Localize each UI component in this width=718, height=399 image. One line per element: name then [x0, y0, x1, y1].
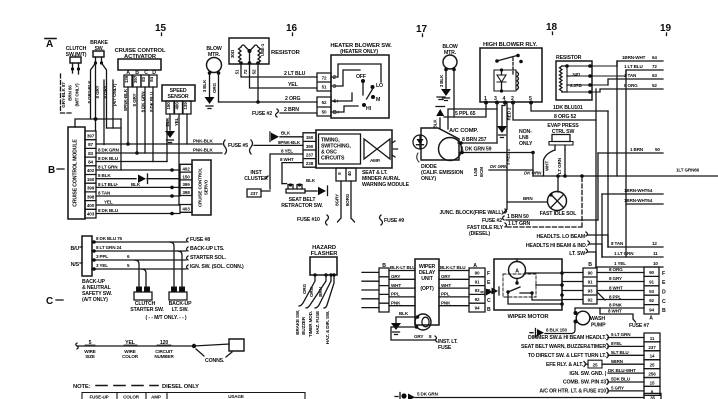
dashed wire M/T only clutch — [61, 74, 74, 113]
svg-text:B+: B+ — [333, 110, 340, 116]
svg-text:92: 92 — [588, 298, 593, 303]
wire pin398 8 TAN to servo — [96, 195, 180, 197]
svg-text:2 BRN: 2 BRN — [284, 107, 299, 113]
high blower relay box — [480, 48, 542, 102]
junc block label — [439, 210, 503, 216]
grid column label 16 — [286, 23, 298, 34]
svg-text:(A/T ONLY): (A/T ONLY) — [82, 297, 108, 303]
wire 1 DK GRN 59 from compressor — [459, 152, 533, 154]
svg-text:72: 72 — [322, 76, 327, 81]
svg-text:FAST IDLE SOL: FAST IDLE SOL — [540, 211, 578, 217]
hazard wire BRN — [315, 275, 331, 308]
svg-text:8PNK-BLK: 8PNK-BLK — [123, 88, 128, 111]
wire BLK to ground from grommet — [396, 317, 418, 323]
svg-text:50: 50 — [655, 147, 660, 152]
ign sw gnd row label — [569, 371, 606, 377]
wiper motor internal wires — [508, 259, 562, 304]
wire 8 PPL to conn C — [597, 292, 644, 300]
svg-text:150: 150 — [166, 102, 171, 110]
svg-text:8 BLK: 8 BLK — [98, 173, 111, 178]
svg-text:92: 92 — [475, 297, 480, 302]
svg-text:25: 25 — [650, 363, 655, 368]
svg-text:4+: 4+ — [333, 99, 339, 105]
svg-text:139: 139 — [124, 75, 129, 83]
svg-text:93: 93 — [588, 289, 593, 294]
svg-text:150: 150 — [182, 174, 190, 179]
wire vertical x598 fuse2 riser — [597, 153, 599, 220]
wire blower ORG down to y102 — [218, 73, 220, 102]
svg-text:BACK-UP LTS.: BACK-UP LTS. — [190, 246, 225, 252]
wire brake sw left down — [95, 63, 97, 131]
wire DK BLU-WHT row5 — [608, 372, 644, 374]
wire 8YEL row2 — [608, 345, 644, 347]
hazard wire ORG 1 — [299, 275, 315, 306]
usage table — [82, 393, 305, 399]
svg-text:WHT: WHT — [391, 283, 401, 288]
rotated wire label 8 DK GRN — [141, 91, 146, 113]
wire clutch starter sw risers — [135, 260, 146, 287]
module pin numbers — [87, 133, 95, 216]
grid column label 19 — [660, 23, 672, 34]
terminal box 237 — [644, 342, 660, 351]
inst cluster box 237 — [247, 189, 261, 197]
speed sensor pin box 400 — [175, 101, 183, 114]
svg-text:OFF: OFF — [356, 74, 366, 80]
svg-text:8 ORG 52: 8 ORG 52 — [554, 114, 576, 120]
wire 2 BRN from fuse #2 — [280, 112, 317, 114]
ground blower motor 2 — [441, 89, 451, 96]
blower resistor box (col16) — [229, 38, 269, 64]
wire 8 BRN 257 from compressor — [458, 142, 497, 144]
terminal box 256 — [644, 369, 660, 378]
dashed wire 1 LT GRN diesel — [507, 176, 582, 227]
svg-text:94: 94 — [475, 306, 480, 311]
wire brake sw 8 GRY-BLK diagonal — [91, 63, 96, 119]
svg-text:400: 400 — [175, 102, 180, 110]
wire BLK into timing module pin150 — [280, 136, 303, 138]
activator pin box 83 — [141, 75, 149, 87]
wiper conn letters F E D C B and A — [649, 271, 666, 322]
svg-text:94: 94 — [649, 308, 654, 313]
grid column label 15 — [155, 23, 167, 34]
connector arrow BLK — [271, 133, 279, 141]
heater sw pin boxes 72 51 — [317, 73, 331, 91]
legend labels 5 YEL 120 — [89, 340, 169, 346]
svg-text:HAZ. FUSE: HAZ. FUSE — [315, 311, 320, 334]
A/C compressor body — [421, 128, 459, 160]
evap press ctrl sw label — [547, 123, 579, 135]
M/T only note — [145, 315, 186, 321]
svg-text:EFE RLY. & ALT.: EFE RLY. & ALT. — [546, 362, 584, 368]
svg-text:GRY: GRY — [441, 274, 450, 279]
grid row C dash — [56, 299, 63, 301]
svg-text:91: 91 — [475, 279, 480, 284]
timing module pin boxes 150 390 237 238 — [303, 133, 316, 167]
wire pin150 8 BLK with connector — [96, 178, 180, 180]
inst cluster label — [244, 170, 268, 182]
back-up & neutral safety switch pin labels — [71, 246, 80, 268]
wire resistor pin to YEL row — [250, 63, 318, 88]
svg-text:402: 402 — [182, 167, 190, 172]
svg-text:11: 11 — [650, 336, 655, 341]
wire 8 BLK 150 ground lead — [545, 322, 575, 334]
svg-text:8 DK BLU: 8 DK BLU — [98, 156, 119, 161]
diode D1 — [413, 135, 427, 149]
wire 5 LT GRN row1 — [608, 337, 644, 339]
wire vertical x596 riser — [595, 89, 597, 267]
ign sw sol conn label — [187, 265, 189, 269]
wire 5 BRN row4 — [602, 363, 644, 365]
svg-text:63: 63 — [652, 73, 657, 78]
svg-text:SENSOR: SENSOR — [167, 94, 188, 100]
wire relay pin4 to ground — [502, 103, 505, 126]
svg-text:JUNC. BLOCK(FIRE WALL): JUNC. BLOCK(FIRE WALL) — [439, 210, 503, 216]
headlts hi beam label — [526, 243, 588, 249]
rotated pin labels 51 72 52 — [235, 69, 257, 74]
LN8 ECM rotated label — [473, 167, 484, 177]
wire pin84 8 DK BLU — [96, 161, 167, 163]
seat & lt minder module box — [316, 130, 392, 168]
wire pin83 8 DK GRN to fuse5 — [96, 152, 222, 154]
resistor label (col18) — [556, 55, 582, 61]
svg-text:14: 14 — [650, 354, 655, 359]
stubs motor to pins — [562, 273, 583, 300]
svg-text:IGN. SW. GND. |: IGN. SW. GND. | — [569, 371, 606, 377]
wiper delay left pin column — [379, 268, 389, 312]
connector on 5 DK GRN wire — [401, 393, 406, 398]
wire 5LT BLU row3 — [608, 354, 644, 356]
node pinA/pnkblk row — [126, 142, 130, 146]
svg-text:HI: HI — [366, 106, 372, 112]
svg-text:403: 403 — [182, 207, 190, 212]
wire speed sensor BLK — [169, 114, 171, 130]
svg-text:TIMER MOD.: TIMER MOD. — [308, 311, 313, 337]
fuse #2 label — [252, 111, 272, 117]
wiper motor armature A — [509, 262, 526, 279]
wire pin87 to fuse5 — [96, 143, 222, 145]
wire 8 WHT into pin238 — [282, 163, 303, 184]
heater sw internal wiring — [331, 64, 381, 112]
grid tick 15 — [161, 33, 163, 36]
svg-text:HAZ. & DIR. SW.: HAZ. & DIR. SW. — [325, 311, 330, 344]
svg-text:STARTER SW.: STARTER SW. — [130, 307, 164, 313]
fuse #2 label lower — [482, 218, 502, 224]
svg-text:8 TAN: 8 TAN — [611, 241, 624, 246]
wire back-up lt sw risers — [170, 242, 182, 287]
wire vertical x113 — [112, 80, 114, 128]
svg-text:390: 390 — [306, 144, 314, 149]
wire GRY to inst lt fuse — [391, 327, 434, 340]
wiper motor internal contacts — [508, 287, 532, 293]
svg-text:16: 16 — [286, 23, 298, 34]
svg-text:FUSE-UP: FUSE-UP — [89, 395, 108, 399]
wiper delay A column label — [473, 263, 477, 269]
wire 8PNK-BLK into pin390 — [254, 144, 303, 146]
wire brake sw right down — [102, 63, 107, 128]
wire 3 PPL to starter sol — [92, 259, 186, 261]
timing switching osc circuits inner box — [319, 134, 361, 164]
svg-text:F: F — [662, 271, 665, 277]
wire horizontal 1 LT GRN 66 row — [533, 175, 718, 177]
svg-text:CIRCUITS: CIRCUITS — [321, 156, 345, 162]
svg-text:HIGH BLOWER RLY.: HIGH BLOWER RLY. — [483, 42, 537, 48]
svg-text:HEADLTS. LO BEAM: HEADLTS. LO BEAM — [536, 234, 585, 240]
wires into wiper delay unit left — [389, 271, 415, 306]
svg-text:3 RED 2: 3 RED 2 — [506, 148, 511, 165]
wiper delay unit B column label — [382, 263, 386, 269]
svg-text:BRAKE SW,: BRAKE SW, — [295, 310, 300, 335]
svg-text:83: 83 — [88, 151, 93, 156]
wiper conn column 90 91 93 92 94 — [644, 267, 659, 314]
svg-text:SERVO: SERVO — [204, 179, 209, 195]
wire BLK to ground from retractor — [305, 190, 317, 192]
svg-text:A/C COMP.: A/C COMP. — [449, 128, 478, 134]
svg-text:3 BLK: 3 BLK — [439, 74, 444, 87]
wire 8 PNK from wash pump to conn B — [575, 308, 644, 313]
headlts lo beam label — [536, 234, 585, 240]
svg-text:87: 87 — [88, 142, 93, 147]
rotated wire label 8 PNK-BLK — [123, 88, 128, 111]
grid tick 17 — [422, 34, 424, 37]
svg-text:ECM: ECM — [479, 167, 484, 177]
svg-text:DIESEL ONLY: DIESEL ONLY — [162, 384, 199, 390]
svg-text:50: 50 — [322, 110, 327, 115]
svg-text:FUSE #2: FUSE #2 — [252, 111, 272, 117]
svg-text:A: A — [46, 39, 53, 50]
svg-text:N/S: N/S — [71, 262, 80, 268]
wire pin399 8 LT BLU-BLK to servo — [96, 186, 180, 188]
wire clutch pins — [73, 69, 79, 74]
wire 8 GRY down to fuse10 — [338, 181, 342, 222]
speed sensor box — [162, 85, 195, 101]
svg-text:CRUISE CONTROL: CRUISE CONTROL — [198, 168, 203, 208]
svg-text:398: 398 — [182, 190, 190, 195]
cruise control activator label — [115, 48, 166, 60]
svg-text:(OPT): (OPT) — [420, 286, 434, 292]
hazard wire 4 — [324, 275, 334, 308]
svg-text:19: 19 — [660, 23, 672, 34]
svg-text:ORG: ORG — [302, 283, 307, 294]
relay dashed actuator link — [512, 58, 514, 74]
heater blower switch box — [331, 55, 389, 118]
grid column label 18 — [546, 22, 558, 33]
svg-text:5 DK GRN: 5 DK GRN — [417, 392, 439, 397]
module bottom pin boxes 8 40 — [336, 168, 356, 181]
svg-text:40: 40 — [347, 171, 352, 176]
heater sw internal pin numbers — [333, 75, 340, 116]
svg-text:400: 400 — [87, 203, 95, 208]
node x121/x172 on 402 wire — [170, 168, 174, 172]
svg-text:93: 93 — [475, 288, 480, 293]
svg-text:C: C — [662, 299, 666, 305]
evap press ctrl sw connector — [552, 135, 570, 142]
seat & lt minder aural warning module label — [362, 170, 410, 188]
svg-text:DK BLU-WHT: DK BLU-WHT — [608, 368, 636, 373]
svg-text:F: F — [487, 271, 490, 277]
connector arrow and ground retractor — [318, 187, 326, 195]
svg-text:237: 237 — [306, 152, 314, 157]
svg-text:150: 150 — [306, 135, 314, 140]
fast idle sol label — [540, 211, 578, 217]
wiper delay pin letters F E D C B — [487, 271, 491, 313]
wire blower2 3 BLK — [445, 70, 447, 89]
blower motor label (col16) — [206, 46, 222, 58]
svg-text:11: 11 — [653, 251, 658, 256]
svg-text:5LT BLU: 5LT BLU — [611, 350, 629, 355]
connector arrow at pin D — [492, 288, 499, 295]
resistor value 2.37 ohm — [570, 83, 582, 88]
svg-text:BLK-LT BLU: BLK-LT BLU — [440, 265, 466, 270]
grid tick 16 — [292, 33, 294, 36]
svg-text:3: 3 — [333, 84, 336, 90]
rotated wire label BLK — [165, 117, 170, 127]
svg-text:3 PPL: 3 PPL — [96, 254, 108, 259]
svg-text:51: 51 — [235, 69, 240, 74]
svg-text:5 LT GRN: 5 LT GRN — [611, 332, 631, 337]
svg-text:403: 403 — [87, 212, 95, 217]
svg-text:PNK-BLK: PNK-BLK — [193, 139, 213, 144]
svg-text:IGN. SW. (SOL. CONN.): IGN. SW. (SOL. CONN.) — [190, 264, 244, 270]
legend connector box — [194, 344, 229, 346]
svg-text:8 GRY: 8 GRY — [132, 93, 137, 106]
svg-text:256: 256 — [648, 372, 656, 377]
svg-text:FUSE #8: FUSE #8 — [190, 237, 210, 243]
legend sample wire — [77, 345, 194, 347]
wire 5DK BLU row6 — [608, 381, 644, 383]
svg-text:A/C OR HTR. LT. & FUSE #10: A/C OR HTR. LT. & FUSE #10 — [539, 389, 606, 395]
diode label — [421, 164, 464, 182]
svg-text:1LT GRN66: 1LT GRN66 — [676, 168, 700, 173]
rotated labels ORG ORG BRN — [302, 283, 323, 297]
relay switch contact — [497, 56, 517, 62]
svg-text:PNK-BLK: PNK-BLK — [193, 148, 213, 153]
svg-text:DIMMER SW.& HI BEAM HEADLT.: DIMMER SW.& HI BEAM HEADLT. — [528, 335, 607, 341]
svg-text:B/U: B/U — [71, 246, 80, 252]
rotated wire label 8 GRY-BLK — [87, 80, 92, 104]
wire 8 TAN 12 — [608, 246, 663, 248]
terminal box 35 — [644, 393, 661, 399]
rotated label RED 2 — [507, 107, 512, 120]
hazard flasher box — [310, 257, 337, 275]
svg-text:1 LT GRN: 1 LT GRN — [614, 251, 634, 256]
svg-text:237: 237 — [648, 345, 656, 350]
wire 1 LT BLU 72 — [626, 70, 663, 76]
svg-text:ONLY: ONLY — [519, 141, 533, 147]
svg-text:SIZE: SIZE — [85, 354, 95, 359]
svg-text:WHT: WHT — [545, 161, 550, 171]
svg-text:91: 91 — [649, 279, 654, 284]
wire blower2 to 5 PPL 65 row — [453, 70, 455, 118]
heater sw contacts — [361, 79, 365, 83]
svg-text:NUMBER: NUMBER — [154, 354, 174, 359]
svg-text:8 DK BLU: 8 DK BLU — [98, 208, 119, 213]
wire relay pin2 to 8 ORG 52 row — [513, 103, 596, 121]
wire 1 TAN 63 — [608, 79, 663, 85]
svg-text:3 YEL: 3 YEL — [96, 263, 108, 268]
svg-text:FUSE #5: FUSE #5 — [228, 143, 248, 149]
wire 8 YEL into pin237 — [270, 154, 303, 189]
label PNK-BLK upper — [193, 139, 213, 144]
fuse #7 label — [629, 323, 649, 329]
wire 8 WHT wash pump to fuse7 — [600, 308, 636, 322]
wire evap to fast idle sol — [557, 176, 559, 192]
svg-text:AMP.: AMP. — [370, 158, 380, 163]
clutch starter sw label — [130, 301, 164, 313]
wire headlts hi beam — [590, 244, 602, 257]
wiper delay unit box — [415, 259, 439, 325]
svg-text:1 DK GRN 59: 1 DK GRN 59 — [461, 147, 492, 153]
wire 5 PPL 65 to relay pin1 — [444, 103, 486, 118]
svg-text:1BRN-WHT64: 1BRN-WHT64 — [624, 188, 653, 193]
svg-text:BLK: BLK — [433, 119, 438, 129]
wire headlts lo beam — [588, 235, 608, 247]
svg-text:8 WHT: 8 WHT — [280, 157, 294, 162]
svg-text:PUMP: PUMP — [591, 323, 606, 329]
wire activator pin D down — [152, 87, 154, 162]
wire relay pin5 to 1 DK BLU 101 row — [531, 103, 608, 112]
wire vertical x121 to 8LTGRN row — [120, 119, 122, 170]
svg-text:DK GRN: DK GRN — [524, 171, 542, 176]
wire 8 DK BLU 75 to fuse8 — [92, 241, 186, 243]
svg-text:90: 90 — [649, 270, 654, 275]
wire 1 BRN-WHT 64 row a — [602, 193, 663, 195]
speed sensor pin box 139 — [183, 101, 191, 114]
relay coil — [517, 72, 519, 90]
svg-text:B: B — [588, 262, 592, 268]
grid tick 19 — [666, 33, 668, 36]
svg-text:238: 238 — [306, 161, 314, 166]
blower motor label (col17) — [442, 44, 458, 56]
svg-text:5 PPL 65: 5 PPL 65 — [455, 111, 476, 117]
svg-text:RESISTOR: RESISTOR — [556, 55, 582, 61]
svg-text:1 BRN: 1 BRN — [630, 147, 644, 152]
svg-text:83: 83 — [141, 77, 146, 82]
svg-text:8 PNK: 8 PNK — [609, 303, 623, 308]
svg-text:(HEATER ONLY): (HEATER ONLY) — [340, 49, 378, 55]
rotated destination labels — [295, 310, 300, 335]
svg-text:PPL: PPL — [391, 292, 400, 297]
svg-text:(M/T ONLY): (M/T ONLY) — [75, 83, 80, 107]
svg-text:D: D — [662, 290, 666, 296]
cruise control activator box — [118, 59, 161, 70]
wire 8 LT GRN 24 to back-up lts — [92, 250, 186, 252]
svg-text:COLOR: COLOR — [122, 354, 139, 359]
servo pin box 402 — [180, 164, 192, 195]
wiper delay left stubs — [362, 272, 379, 307]
svg-text:8 WHT: 8 WHT — [609, 286, 623, 291]
svg-text:A: A — [649, 316, 653, 322]
svg-text:8GRY: 8GRY — [335, 194, 340, 206]
svg-text:399: 399 — [182, 182, 190, 187]
wire 1 LT GRN 11 — [602, 256, 663, 258]
wire 5 GRY row7 — [608, 390, 644, 392]
svg-text:10: 10 — [653, 261, 658, 266]
rotated wire label 8 GRY — [132, 93, 137, 106]
svg-text:COLOR: COLOR — [123, 395, 140, 399]
svg-text:52: 52 — [322, 100, 327, 105]
heater sw pin boxes 52 50 — [317, 97, 331, 116]
svg-text:BLK: BLK — [399, 311, 409, 316]
svg-text:FUSE: FUSE — [438, 345, 452, 351]
svg-text:18: 18 — [546, 22, 558, 33]
comb sw pin 3 row label — [563, 380, 606, 386]
svg-text:BUZZER: BUZZER — [301, 316, 306, 335]
fuse #8 label — [187, 238, 189, 242]
svg-text:( - - M/T ONLY. - - ): ( - - M/T ONLY. - - ) — [145, 315, 186, 321]
svg-text:BLK: BLK — [281, 131, 291, 136]
svg-text:LT GRN: LT GRN — [557, 157, 562, 174]
svg-text:17: 17 — [416, 24, 428, 35]
